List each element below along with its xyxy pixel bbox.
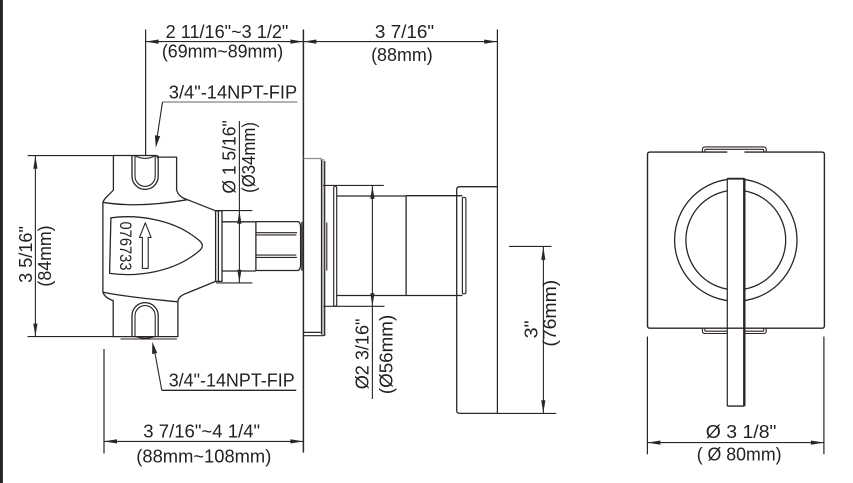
svg-text:(84mm): (84mm)	[35, 225, 55, 286]
top port dish curve	[135, 156, 155, 159]
dim 3 5/16 (84mm) line	[34, 156, 36, 337]
dim 2 11/16~3 1/2 extension line	[145, 30, 147, 156]
hex nut	[256, 222, 301, 271]
svg-text:Ø 1 5/16": Ø 1 5/16"	[219, 120, 239, 193]
handle bar	[727, 178, 744, 406]
hex facet lines	[256, 233, 297, 258]
top port bore outer U	[132, 156, 158, 190]
leader line top	[156, 102, 162, 143]
page border left bar	[0, 0, 3, 483]
handle hub cylinder	[406, 196, 462, 296]
center line extension for 3in dim	[509, 245, 552, 247]
dim 3 7/16~4 1/4 extension line	[103, 349, 105, 454]
bottom port bore outer U	[132, 303, 158, 337]
top port bore inner U	[135, 156, 155, 187]
escutcheon side view	[457, 187, 498, 414]
svg-text:(88mm~108mm): (88mm~108mm)	[136, 446, 271, 466]
bonnet flange	[216, 211, 222, 282]
svg-text:3 5/16": 3 5/16"	[16, 226, 36, 283]
dim O 3 1/8 line	[647, 442, 824, 444]
stem cylinder	[222, 222, 256, 271]
bottom port dish curve	[135, 337, 155, 339]
valve body outline	[103, 156, 216, 337]
leader underline bottom	[162, 389, 296, 391]
leader line bottom	[154, 347, 162, 391]
label arrow (outlined, up)	[140, 223, 152, 269]
svg-text:2 11/16"~3 1/2": 2 11/16"~3 1/2"	[166, 22, 289, 42]
dim 3 5/16 (84mm) extension lines	[28, 156, 114, 337]
hub end cap	[462, 197, 466, 293]
plaster guard bottom foot	[304, 332, 325, 335]
valve end face at wall	[301, 222, 303, 271]
dim O 3 1/8 extension lines	[647, 337, 824, 455]
plaster guard fill	[322, 159, 325, 335]
dim 3 7/16 (88mm) line	[303, 41, 497, 43]
plaster guard top flange	[304, 159, 322, 161]
plaster guard edges	[322, 160, 325, 336]
svg-text:(88mm): (88mm)	[371, 45, 433, 65]
svg-text:Ø2 3/16": Ø2 3/16"	[352, 319, 372, 390]
svg-text:076733: 076733	[116, 222, 135, 271]
svg-text:3/4"-14NPT-FIP: 3/4"-14NPT-FIP	[169, 83, 297, 103]
bottom mounting tab	[702, 328, 766, 333]
dim 3 7/16~4 1/4 line	[104, 440, 303, 442]
svg-text:(76mm): (76mm)	[540, 280, 560, 347]
svg-text:(Ø56mm): (Ø56mm)	[376, 315, 396, 394]
svg-text:3 7/16"~4 1/4": 3 7/16"~4 1/4"	[143, 421, 260, 441]
valve body neck line bottom	[103, 292, 178, 302]
leader underline top (gray)	[163, 101, 298, 103]
svg-text:3": 3"	[521, 320, 541, 338]
label oval	[110, 217, 203, 275]
dim 2 11/16~3 1/2 line	[146, 41, 304, 43]
svg-text:3/4"-14NPT-FIP: 3/4"-14NPT-FIP	[169, 371, 295, 391]
bottom port shadow line	[121, 338, 177, 340]
escutcheon outer circle	[675, 179, 797, 301]
valve body neck line top	[103, 200, 188, 205]
svg-text:3 7/16": 3 7/16"	[375, 22, 434, 42]
escutcheon inner circle	[686, 190, 786, 290]
dim O 1 5/16 line	[238, 121, 240, 283]
dim 3in line	[542, 247, 544, 413]
top mounting tab	[702, 147, 766, 152]
svg-text:( Ø 80mm): ( Ø 80mm)	[697, 444, 782, 464]
bottom port bore inner U	[135, 306, 155, 337]
dim O2 3/16 extension ticks	[323, 185, 385, 306]
stem hidden edge behind guard	[326, 223, 328, 271]
svg-text:(69mm~89mm): (69mm~89mm)	[162, 42, 283, 62]
dim O2 3/16 line	[371, 186, 373, 399]
svg-text:(Ø34mm): (Ø34mm)	[239, 122, 259, 193]
sleeve end flange	[334, 186, 337, 306]
escutcheon front face / extension line	[496, 30, 498, 414]
sleeve cylinder	[337, 196, 406, 296]
bottom extension for 3in dim	[497, 412, 556, 414]
finished wall line	[302, 30, 304, 453]
dim O 1 5/16 extension ticks	[216, 211, 252, 283]
square escutcheon plate	[648, 152, 825, 328]
svg-text:Ø 3 1/8": Ø 3 1/8"	[706, 422, 777, 442]
